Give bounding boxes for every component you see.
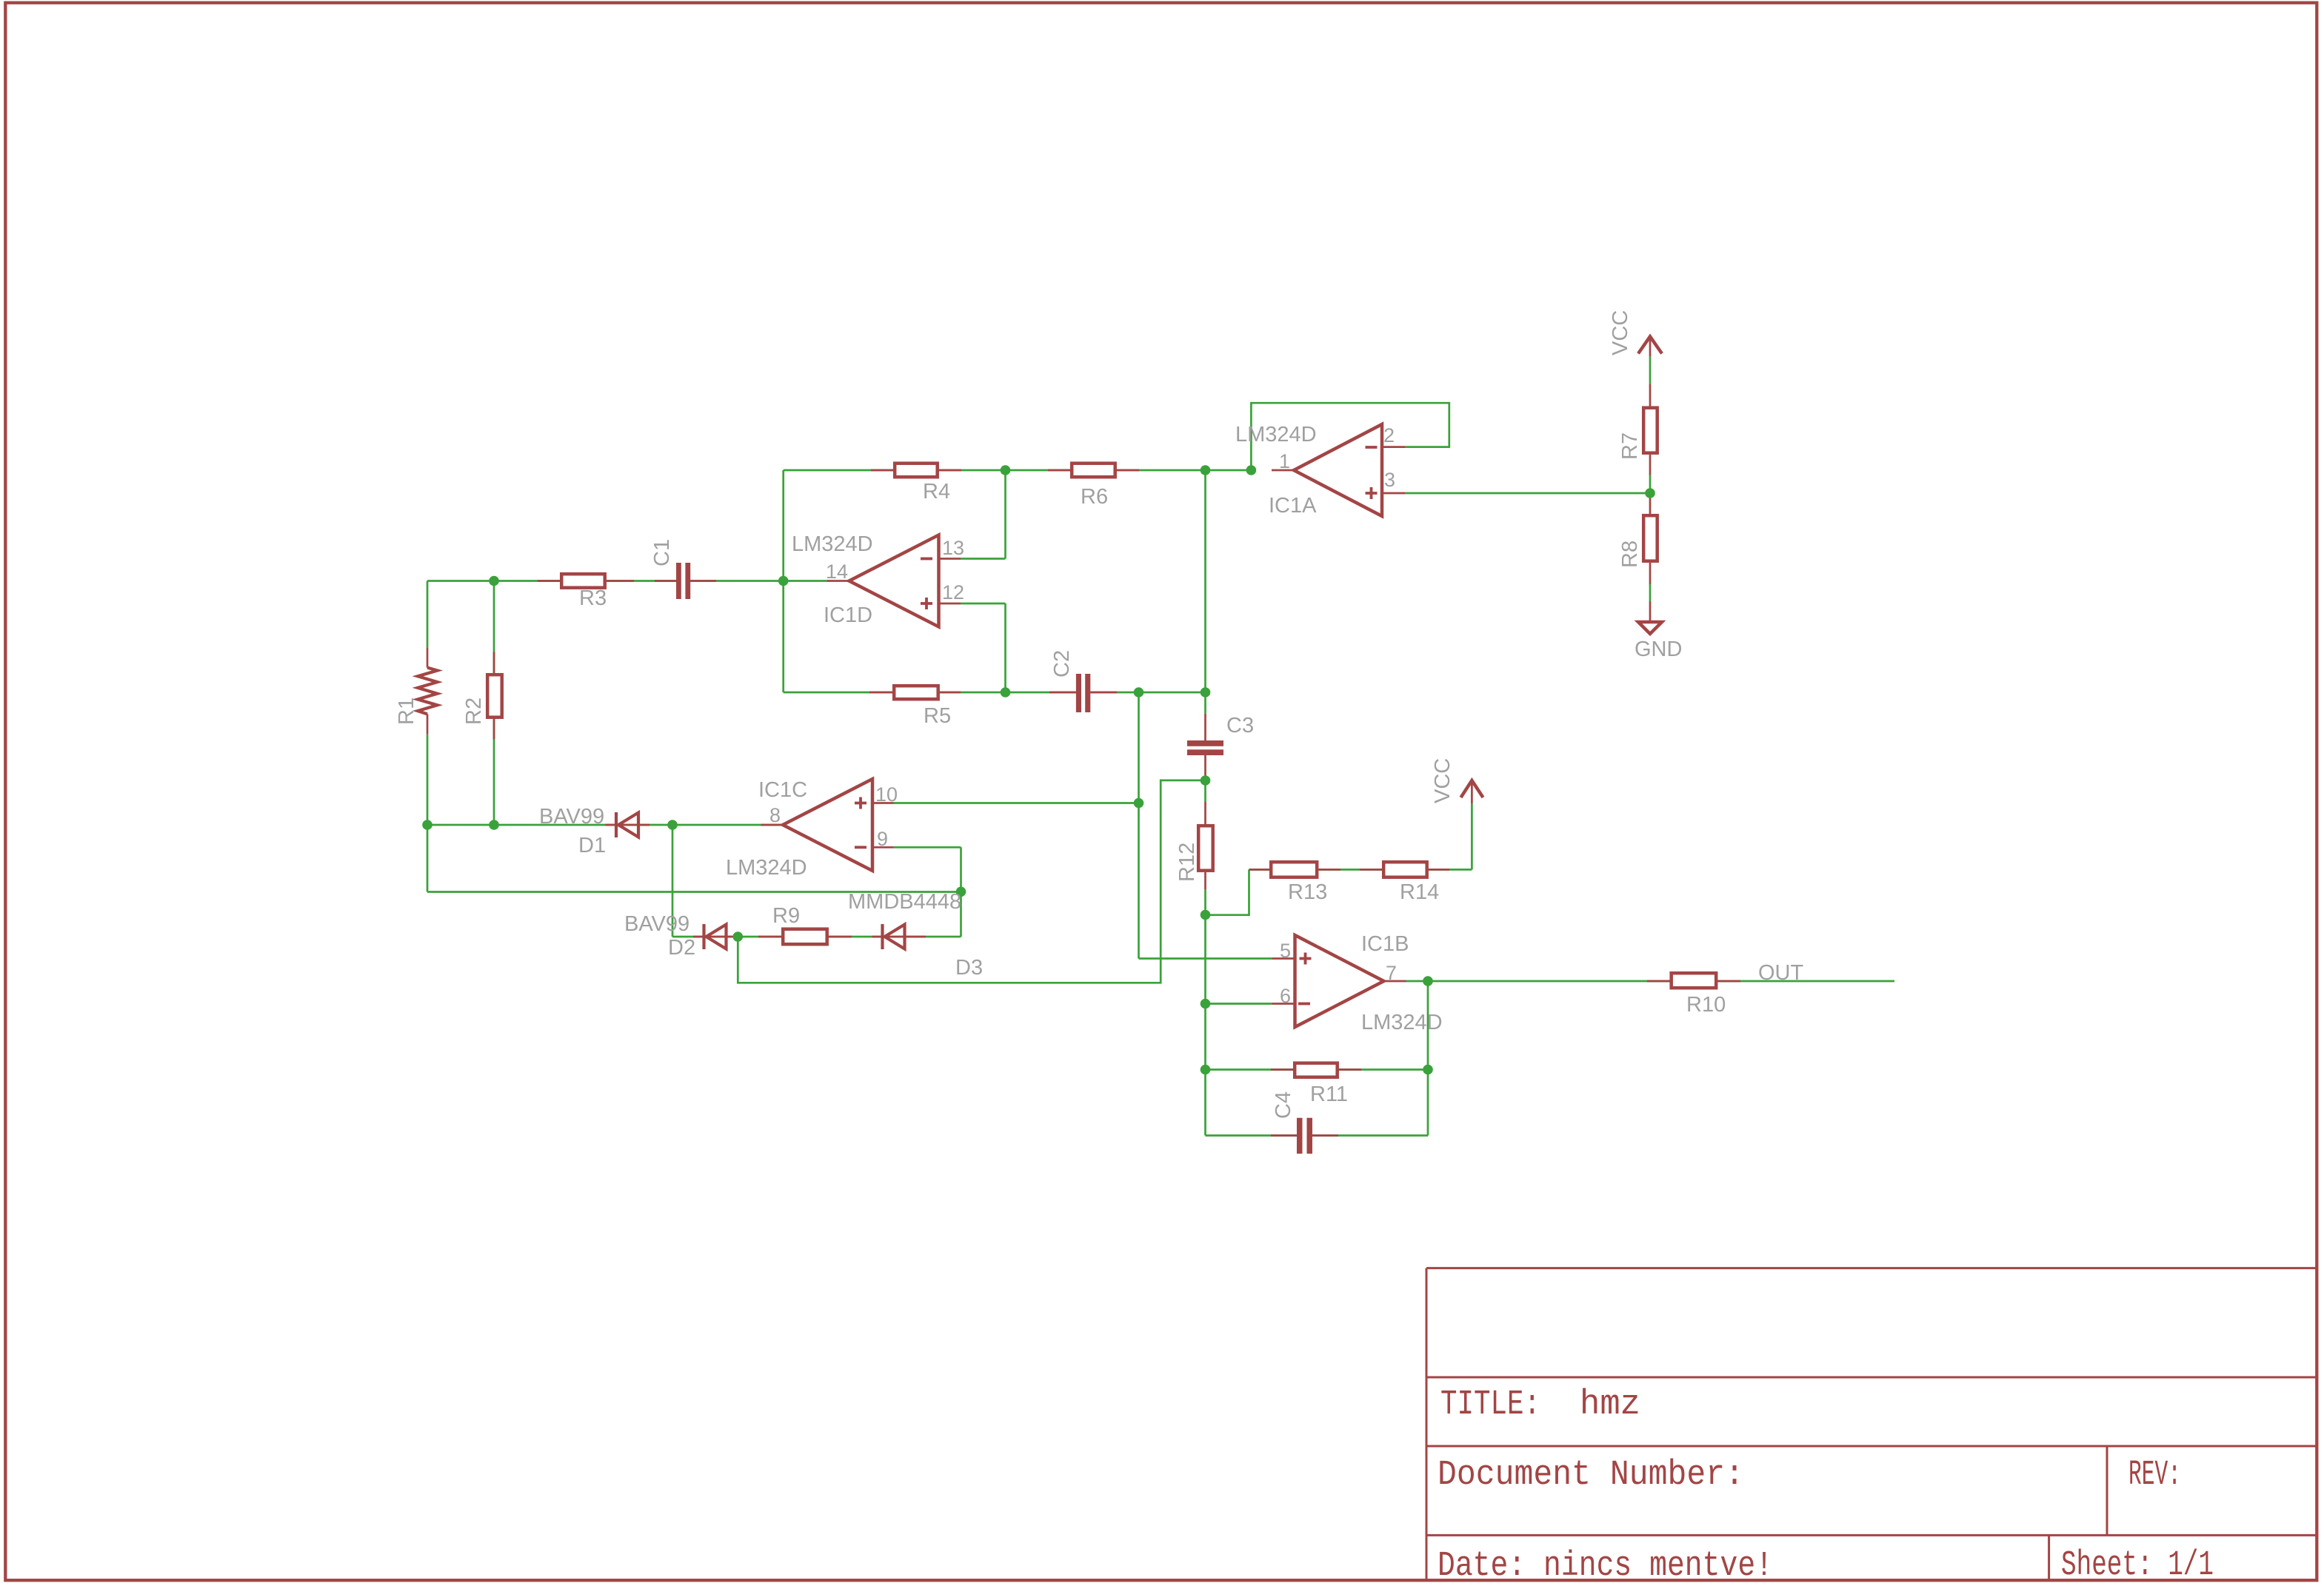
pin stub IC1D output pin 14 bbox=[827, 580, 849, 582]
svg-text:13: 13 bbox=[942, 537, 964, 559]
junction node R7/R8 pin3 bbox=[1645, 488, 1655, 498]
wire net N1 top row R3/C1 y=784.5 bbox=[427, 580, 784, 582]
wire D1 row y=1114 bbox=[427, 824, 783, 826]
wire VCC2 riser x=1987.4 bbox=[1471, 803, 1473, 869]
junction node C2 right bbox=[1134, 687, 1144, 698]
pin stubs R3 bbox=[538, 580, 634, 582]
resistor R9 bbox=[783, 929, 827, 945]
svg-text:LM324D: LM324D bbox=[1235, 423, 1317, 446]
junction node pin10 lineA bbox=[1134, 798, 1144, 809]
junction node R11 right bbox=[1423, 1065, 1433, 1075]
resistor R6 bbox=[1072, 464, 1115, 478]
wire pin3 row y=666 bbox=[1406, 492, 1650, 495]
svg-text:R9: R9 bbox=[772, 904, 800, 928]
resistor R14 bbox=[1383, 862, 1427, 877]
svg-text:BAV99: BAV99 bbox=[624, 912, 689, 936]
pin stubs R5 bbox=[869, 692, 961, 694]
svg-text:Sheet: 1/1: Sheet: 1/1 bbox=[2061, 1546, 2214, 1585]
wire bottom horizontal feedback row y=1204.5 bbox=[427, 891, 961, 893]
resistor R2 bbox=[487, 675, 502, 717]
wire pin9 row y=1144.3 bbox=[894, 846, 961, 849]
resistor R5 bbox=[894, 686, 938, 699]
junction node R2/D1 bbox=[489, 820, 499, 830]
svg-text:R5: R5 bbox=[924, 704, 951, 728]
resistor R1 zigzag bbox=[418, 668, 438, 715]
pin stub VCC1 supply bbox=[1649, 338, 1652, 356]
wire R11 row y=1444.5 bbox=[1206, 1068, 1429, 1071]
svg-text:C4: C4 bbox=[1272, 1091, 1295, 1119]
svg-text:D2: D2 bbox=[668, 936, 695, 960]
svg-text:R7: R7 bbox=[1618, 432, 1642, 460]
svg-text:LM324D: LM324D bbox=[726, 856, 807, 880]
wire right column x=1928 bbox=[1427, 981, 1429, 1136]
junction node R5/pin12 bbox=[1001, 687, 1011, 698]
svg-text:9: 9 bbox=[877, 828, 888, 850]
wire pin10 row y=1084.5 bbox=[894, 802, 1139, 804]
pin stubs R10 bbox=[1647, 980, 1740, 983]
resistor R10 bbox=[1672, 973, 1717, 988]
junction node R11 left bbox=[1201, 1065, 1211, 1075]
CAPBARS bbox=[676, 563, 1312, 1154]
svg-text:R6: R6 bbox=[1081, 485, 1108, 509]
pin stubs D1 bbox=[606, 824, 650, 826]
svg-text:R14: R14 bbox=[1400, 880, 1439, 904]
junction node R6 right bbox=[1201, 465, 1211, 475]
pin stubs R1 bbox=[427, 647, 429, 735]
resistor R13 bbox=[1271, 862, 1317, 877]
svg-text:Document Number:: Document Number: bbox=[1438, 1456, 1744, 1495]
wire pin12 column x=1357.5 bbox=[1004, 603, 1006, 692]
svg-text:R4: R4 bbox=[923, 480, 950, 504]
pin stub IC1B output pin 7 bbox=[1384, 980, 1406, 983]
svg-text:10: 10 bbox=[875, 783, 898, 806]
wire vertical x=908 D1-to-D2 bbox=[672, 825, 674, 937]
svg-text:12: 12 bbox=[942, 581, 964, 603]
wire vertical x=1297.5 pin9 column bbox=[960, 847, 962, 937]
junction node pin6 bbox=[1201, 999, 1211, 1009]
op-amp IC1D plus mark pin12 bbox=[921, 598, 932, 609]
op-amp IC1D triangle bbox=[849, 535, 939, 627]
wire left mid column x=1057.7 bbox=[782, 470, 784, 692]
supply symbol VCC top arrow bbox=[1638, 337, 1662, 354]
junction node pin14/C1 bbox=[778, 576, 789, 586]
wire left vertical R1 column x=577 bbox=[427, 581, 429, 892]
resistor R3 bbox=[561, 574, 605, 588]
op-amp IC1A minus mark pin2 bbox=[1366, 446, 1378, 449]
op-amp IC1B minus mark pin6 bbox=[1298, 1003, 1310, 1006]
pin stubs IC1B inputs pins 5 6 bbox=[1272, 959, 1295, 1004]
junction node pin7 bbox=[1423, 976, 1433, 986]
resistor R8 bbox=[1643, 515, 1657, 561]
svg-text:6: 6 bbox=[1280, 985, 1291, 1007]
svg-text:IC1A: IC1A bbox=[1269, 494, 1317, 518]
svg-text:14: 14 bbox=[826, 561, 848, 583]
op-amp IC1A triangle bbox=[1294, 424, 1382, 516]
wire pin14 row y=784.5 bbox=[784, 580, 827, 582]
pin stub GND symbol bbox=[1649, 601, 1652, 622]
svg-text:5: 5 bbox=[1280, 940, 1291, 962]
wire R13 R14 row y=1174.4 bbox=[1249, 869, 1472, 871]
resistor R7 bbox=[1643, 408, 1657, 453]
pin stubs R14 bbox=[1360, 869, 1449, 871]
pin stubs C1 bbox=[655, 580, 716, 582]
pin stubs R8 bbox=[1649, 493, 1652, 584]
svg-text:LM324D: LM324D bbox=[1361, 1011, 1443, 1034]
svg-text:R1: R1 bbox=[395, 698, 418, 725]
op-amp IC1B triangle bbox=[1295, 935, 1384, 1027]
wire D2 R9 D3 row y=1265 bbox=[672, 936, 961, 938]
resistor R4 bbox=[895, 464, 938, 478]
title block frame lines bbox=[1426, 1268, 2317, 1581]
wire R2 column x=667 bbox=[493, 581, 495, 826]
svg-text:R8: R8 bbox=[1618, 541, 1642, 568]
svg-text:R3: R3 bbox=[579, 586, 607, 610]
svg-text:C2: C2 bbox=[1050, 650, 1074, 678]
svg-text:VCC: VCC bbox=[1609, 310, 1632, 355]
svg-text:2: 2 bbox=[1383, 424, 1395, 446]
pin stubs C4 bbox=[1271, 1134, 1338, 1137]
capacitor C1 plates bbox=[676, 563, 681, 599]
TITLEBLOCK bbox=[1426, 1268, 2317, 1586]
svg-text:IC1D: IC1D bbox=[824, 603, 872, 627]
wire OUT row y=1325 bbox=[1406, 980, 1895, 983]
pin stubs R12 bbox=[1204, 802, 1206, 889]
svg-text:R2: R2 bbox=[462, 698, 486, 725]
pin stubs IC1D inputs pins 13 12 bbox=[939, 559, 961, 604]
svg-text:REV:: REV: bbox=[2128, 1456, 2181, 1495]
junction node R4/pin13 bbox=[1001, 465, 1011, 475]
wire C2 row y=935 bbox=[784, 692, 1206, 694]
svg-text:R11: R11 bbox=[1310, 1083, 1348, 1106]
wire R13 left drop x=1686.5 bbox=[1206, 869, 1249, 914]
svg-text:C3: C3 bbox=[1226, 714, 1254, 737]
junction node C2/C3 column bbox=[1201, 687, 1211, 698]
diode D3 MMDB4448 bbox=[883, 924, 905, 949]
ground symbol GND bbox=[1638, 622, 1662, 634]
diode D2 BAV99 bbox=[704, 924, 727, 949]
pin stubs IC1C inputs pins 10 9 bbox=[872, 803, 894, 848]
pin stubs R13 bbox=[1249, 869, 1341, 871]
junction node R12 bottom bbox=[1201, 910, 1211, 920]
pin stubs R7 bbox=[1649, 384, 1652, 475]
svg-text:8: 8 bbox=[769, 804, 781, 826]
JUNCTIONS bbox=[422, 465, 1655, 1074]
wire B loop pin9-net to C3 bbox=[738, 780, 1205, 983]
svg-text:OUT: OUT bbox=[1758, 961, 1804, 985]
svg-text:1: 1 bbox=[1279, 450, 1290, 472]
junction node D1 right bbox=[667, 820, 678, 830]
svg-text:R10: R10 bbox=[1686, 993, 1726, 1017]
svg-text:TITLE:: TITLE: bbox=[1440, 1385, 1540, 1425]
wire IC1A feedback loop bbox=[1251, 403, 1449, 470]
op-amp IC1C plus mark pin10 bbox=[855, 797, 867, 809]
junction node R1/D1 bbox=[422, 820, 433, 830]
wire C column x=1627.5 bbox=[1204, 470, 1206, 1136]
wire R4 R6 row y=635 bbox=[784, 469, 1252, 472]
wire VCC1 R7 R8 GND column x=2228 bbox=[1649, 356, 1652, 601]
svg-text:D3: D3 bbox=[955, 956, 983, 980]
pin stubs R2 bbox=[493, 652, 495, 739]
svg-text:D1: D1 bbox=[578, 834, 606, 857]
capacitor C2 plates bbox=[1076, 674, 1081, 712]
junction node pin1 feedback bbox=[1246, 465, 1257, 475]
supply symbol VCC mid arrow bbox=[1461, 780, 1483, 797]
MARKS bbox=[855, 447, 1378, 1004]
pin stub IC1A output pin 1 bbox=[1272, 469, 1294, 472]
pin stubs D3 bbox=[872, 936, 926, 938]
pin stubs R4 bbox=[871, 469, 961, 472]
wire pin13 column x=1357.5 bbox=[1004, 470, 1006, 559]
pin stubs R6 bbox=[1048, 469, 1139, 472]
pin stubs R9 bbox=[758, 936, 852, 938]
op-amp IC1D minus mark pin13 bbox=[921, 558, 932, 561]
wire pin13 row y=754.5 bbox=[961, 558, 1006, 560]
svg-text:IC1C: IC1C bbox=[758, 778, 807, 802]
resistor R11 bbox=[1295, 1063, 1338, 1077]
junction node feedback row x=1297.5 bbox=[956, 887, 966, 897]
svg-text:7: 7 bbox=[1386, 962, 1397, 984]
svg-text:BAV99: BAV99 bbox=[539, 805, 604, 829]
junction node C3 bottom bbox=[1201, 775, 1211, 786]
pin stubs C2 bbox=[1049, 692, 1117, 694]
svg-text:LM324D: LM324D bbox=[792, 532, 873, 556]
wire pin5 row y=1294.5 bbox=[1139, 957, 1272, 960]
op-amp IC1A plus mark pin3 bbox=[1366, 487, 1378, 499]
wire pin6 row y=1355.5 bbox=[1206, 1003, 1272, 1005]
pin stubs IC1A inputs pins 2 3 bbox=[1382, 447, 1406, 493]
svg-text:IC1B: IC1B bbox=[1361, 932, 1409, 956]
op-amp IC1C triangle bbox=[783, 779, 872, 871]
op-amp IC1B plus mark pin5 bbox=[1300, 953, 1312, 965]
pin stubs R11 bbox=[1271, 1068, 1361, 1071]
svg-text:MMDB4448: MMDB4448 bbox=[848, 890, 961, 914]
resistor R12 bbox=[1198, 826, 1213, 871]
svg-text:Date: nincs mentve!: Date: nincs mentve! bbox=[1438, 1547, 1773, 1586]
pin stub op-amp IC1C output pin 8 bbox=[761, 824, 784, 826]
svg-text:hmz: hmz bbox=[1580, 1385, 1640, 1425]
pin stub VCC2 supply bbox=[1471, 782, 1473, 803]
wire pin12 row y=815 bbox=[961, 603, 1006, 605]
wire C4 row y=1533.5 bbox=[1206, 1134, 1429, 1137]
svg-text:3: 3 bbox=[1384, 469, 1395, 491]
op-amp IC1C minus mark pin9 bbox=[855, 846, 867, 849]
capacitor C4 plates bbox=[1297, 1118, 1303, 1154]
svg-text:VCC: VCC bbox=[1431, 758, 1455, 803]
PINSTUBS bbox=[427, 338, 1740, 1136]
capacitor C3 plates bbox=[1187, 740, 1223, 746]
pin stubs D2 bbox=[693, 936, 736, 938]
svg-text:R13: R13 bbox=[1288, 880, 1327, 904]
svg-text:C1: C1 bbox=[650, 539, 674, 566]
wire line A x=1537.5 C2-to-pin5 bbox=[1138, 692, 1140, 959]
svg-text:GND: GND bbox=[1635, 638, 1682, 661]
junction node D2 right bbox=[733, 931, 744, 942]
pin stubs C3 bbox=[1204, 714, 1206, 780]
diode D1 BAV99 bbox=[616, 812, 638, 837]
svg-text:R12: R12 bbox=[1175, 843, 1199, 882]
junction node R3/R2 top bbox=[489, 576, 499, 586]
